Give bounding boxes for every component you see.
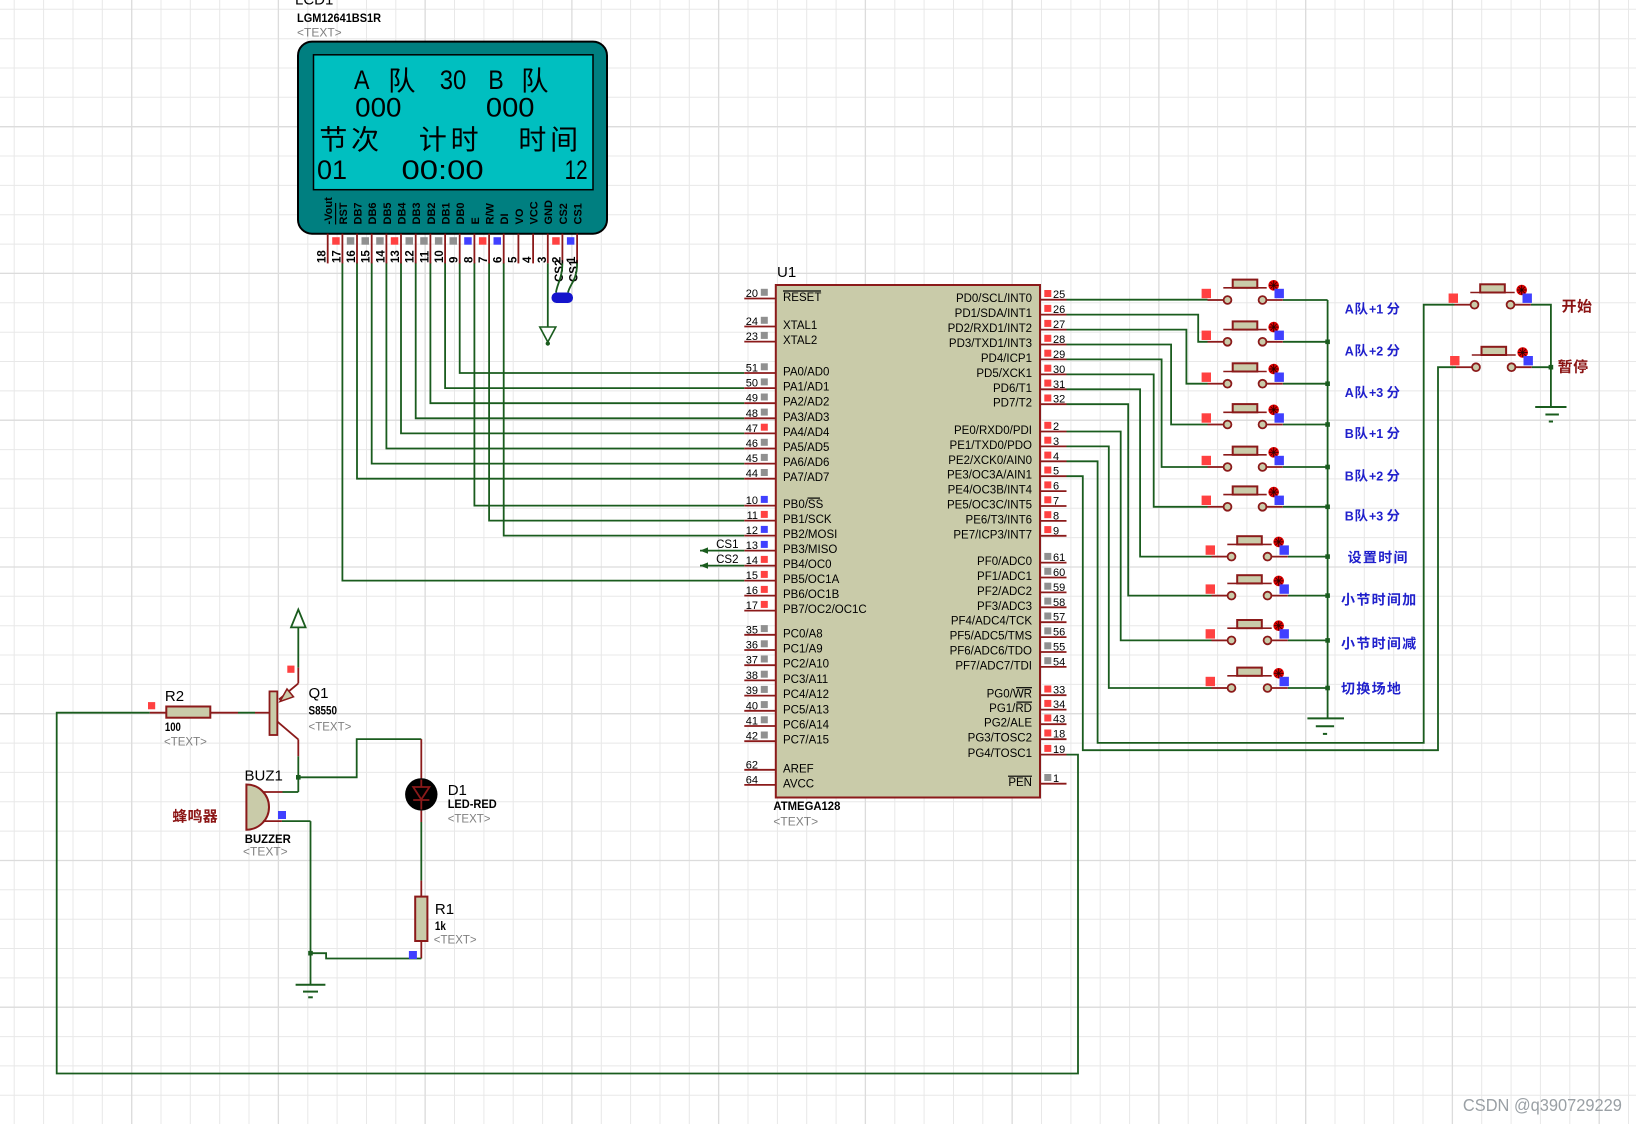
svg-text:R1: R1 xyxy=(435,901,454,918)
svg-text:30: 30 xyxy=(1053,364,1065,376)
svg-text:RESET: RESET xyxy=(783,292,821,304)
svg-text:PD3/TXD1/INT3: PD3/TXD1/INT3 xyxy=(949,338,1032,350)
svg-text:46: 46 xyxy=(746,438,758,450)
svg-text:6: 6 xyxy=(1053,481,1059,493)
svg-text:DB3: DB3 xyxy=(411,202,423,224)
svg-text:VCC: VCC xyxy=(529,201,541,224)
svg-text:B: B xyxy=(1345,427,1354,441)
svg-text:PE6/T3/INT6: PE6/T3/INT6 xyxy=(966,514,1032,526)
svg-text:42: 42 xyxy=(746,731,758,743)
svg-text:12: 12 xyxy=(746,525,758,537)
svg-text:58: 58 xyxy=(1053,597,1065,609)
svg-text:A: A xyxy=(1345,386,1354,400)
svg-text:BUZ1: BUZ1 xyxy=(245,768,283,785)
svg-text:36: 36 xyxy=(746,640,758,652)
svg-text:PC6/A14: PC6/A14 xyxy=(783,720,830,732)
svg-text:XTAL1: XTAL1 xyxy=(783,320,817,332)
svg-text:PC3/A11: PC3/A11 xyxy=(783,674,828,686)
svg-text:6: 6 xyxy=(493,257,505,263)
svg-text:8: 8 xyxy=(1053,510,1059,522)
svg-text:PC5/A13: PC5/A13 xyxy=(783,704,829,716)
svg-text:00:00: 00:00 xyxy=(402,155,484,185)
svg-text:4: 4 xyxy=(1053,451,1059,463)
svg-text:64: 64 xyxy=(746,774,758,786)
svg-text:PE5/OC3C/INT5: PE5/OC3C/INT5 xyxy=(947,500,1032,512)
svg-text:B: B xyxy=(488,65,504,95)
svg-text:13: 13 xyxy=(746,540,758,552)
svg-text:26: 26 xyxy=(1053,304,1065,316)
svg-text:23: 23 xyxy=(746,331,758,343)
svg-text:PE4/OC3B/INT4: PE4/OC3B/INT4 xyxy=(948,485,1033,497)
svg-text:38: 38 xyxy=(746,670,758,682)
svg-text:LCD1: LCD1 xyxy=(295,0,333,9)
svg-text:CSDN @q390729229: CSDN @q390729229 xyxy=(1463,1095,1622,1115)
svg-text:+1: +1 xyxy=(1369,427,1383,441)
svg-text:+3: +3 xyxy=(1369,386,1383,400)
svg-text:PD2/RXD1/INT2: PD2/RXD1/INT2 xyxy=(948,323,1032,335)
svg-text:7: 7 xyxy=(1053,496,1059,508)
svg-text:16: 16 xyxy=(746,585,758,597)
svg-text:+2: +2 xyxy=(1369,344,1383,358)
svg-text:1k: 1k xyxy=(435,921,447,933)
svg-text:PF2/ADC2: PF2/ADC2 xyxy=(977,586,1032,598)
svg-text:A: A xyxy=(354,65,370,95)
svg-text:34: 34 xyxy=(1053,699,1065,711)
svg-text:PG4/TOSC1: PG4/TOSC1 xyxy=(968,748,1032,760)
svg-text:PB7/OC2/OC1C: PB7/OC2/OC1C xyxy=(783,604,867,616)
svg-text:PD1/SDA/INT1: PD1/SDA/INT1 xyxy=(955,308,1032,320)
svg-text:13: 13 xyxy=(390,250,402,263)
svg-text:32: 32 xyxy=(1053,394,1065,406)
svg-text:000: 000 xyxy=(355,93,401,123)
svg-text:ATMEGA128: ATMEGA128 xyxy=(773,799,840,813)
svg-text:U1: U1 xyxy=(777,264,796,281)
svg-text:<TEXT>: <TEXT> xyxy=(773,815,818,829)
svg-text:PF6/ADC6/TDO: PF6/ADC6/TDO xyxy=(950,646,1032,658)
svg-text:43: 43 xyxy=(1053,714,1065,726)
svg-text:PD4/ICP1: PD4/ICP1 xyxy=(981,353,1032,365)
svg-text:59: 59 xyxy=(1053,582,1065,594)
svg-text:<TEXT>: <TEXT> xyxy=(297,26,342,40)
svg-text:15: 15 xyxy=(746,570,758,582)
svg-text:PB6/OC1B: PB6/OC1B xyxy=(783,589,840,601)
svg-text:35: 35 xyxy=(746,624,758,636)
svg-text:16: 16 xyxy=(346,250,358,263)
svg-text:3: 3 xyxy=(1053,436,1059,448)
svg-text:PF3/ADC3: PF3/ADC3 xyxy=(977,601,1032,613)
svg-text:PD6/T1: PD6/T1 xyxy=(993,383,1032,395)
svg-text:25: 25 xyxy=(1053,289,1065,301)
svg-text:B: B xyxy=(1345,470,1354,484)
svg-text:PB0/SS: PB0/SS xyxy=(783,499,824,511)
svg-text:+2: +2 xyxy=(1369,470,1383,484)
svg-text:54: 54 xyxy=(1053,656,1065,668)
svg-text:14: 14 xyxy=(375,250,387,263)
svg-text:PC2/A10: PC2/A10 xyxy=(783,659,829,671)
svg-text:50: 50 xyxy=(746,378,758,390)
svg-text:PF5/ADC5/TMS: PF5/ADC5/TMS xyxy=(950,631,1033,643)
svg-text:12: 12 xyxy=(405,250,417,263)
svg-text:CS1: CS1 xyxy=(716,539,738,551)
svg-text:10: 10 xyxy=(746,495,758,507)
svg-text:57: 57 xyxy=(1053,612,1065,624)
svg-text:RST: RST xyxy=(338,202,350,224)
svg-text:PA6/AD6: PA6/AD6 xyxy=(783,457,829,469)
svg-text:41: 41 xyxy=(746,716,758,728)
svg-text:DB5: DB5 xyxy=(382,202,394,224)
svg-text:31: 31 xyxy=(1053,379,1065,391)
svg-text:DB4: DB4 xyxy=(397,202,409,225)
svg-text:PC7/A15: PC7/A15 xyxy=(783,735,829,747)
svg-text:<TEXT>: <TEXT> xyxy=(448,814,491,826)
svg-text:44: 44 xyxy=(746,468,758,480)
svg-text:Q1: Q1 xyxy=(309,685,329,702)
svg-text:55: 55 xyxy=(1053,642,1065,654)
svg-text:+3: +3 xyxy=(1369,509,1383,523)
svg-text:<TEXT>: <TEXT> xyxy=(434,935,477,947)
svg-text:PA1/AD1: PA1/AD1 xyxy=(783,382,829,394)
svg-text:19: 19 xyxy=(1053,744,1065,756)
svg-text:37: 37 xyxy=(746,655,758,667)
svg-text:DB6: DB6 xyxy=(367,202,379,224)
svg-text:45: 45 xyxy=(746,453,758,465)
svg-text:1: 1 xyxy=(1053,773,1059,785)
svg-text:PG1/RD: PG1/RD xyxy=(989,703,1032,715)
svg-text:14: 14 xyxy=(746,555,758,567)
svg-text:PB3/MISO: PB3/MISO xyxy=(783,544,837,556)
svg-text:PF1/ADC1: PF1/ADC1 xyxy=(977,571,1032,583)
svg-text:10: 10 xyxy=(434,250,446,263)
svg-text:A: A xyxy=(1345,344,1354,358)
svg-text:<TEXT>: <TEXT> xyxy=(164,737,207,749)
svg-text:01: 01 xyxy=(317,155,347,185)
svg-text:D1: D1 xyxy=(448,782,467,799)
svg-text:PE0/RXD0/PDI: PE0/RXD0/PDI xyxy=(954,425,1032,437)
svg-text:PE7/ICP3/INT7: PE7/ICP3/INT7 xyxy=(953,529,1032,541)
svg-text:PE1/TXD0/PDO: PE1/TXD0/PDO xyxy=(950,440,1032,452)
svg-text:-Vout: -Vout xyxy=(323,197,335,225)
svg-text:9: 9 xyxy=(449,257,461,263)
svg-text:PC4/A12: PC4/A12 xyxy=(783,689,829,701)
svg-text:29: 29 xyxy=(1053,349,1065,361)
svg-text:R2: R2 xyxy=(165,688,184,705)
svg-text:5: 5 xyxy=(507,256,519,263)
svg-text:000: 000 xyxy=(486,93,535,123)
svg-text:PG3/TOSC2: PG3/TOSC2 xyxy=(968,733,1032,745)
svg-text:11: 11 xyxy=(419,250,431,263)
svg-text:GND: GND xyxy=(543,200,555,225)
svg-text:A: A xyxy=(1345,303,1354,317)
svg-text:4: 4 xyxy=(522,256,534,263)
svg-text:39: 39 xyxy=(746,685,758,697)
svg-text:40: 40 xyxy=(746,700,758,712)
svg-text:11: 11 xyxy=(747,510,758,522)
svg-text:9: 9 xyxy=(1053,525,1059,537)
svg-text:PA7/AD7: PA7/AD7 xyxy=(783,472,829,484)
svg-text:PD7/T2: PD7/T2 xyxy=(993,398,1032,410)
svg-text:E: E xyxy=(470,217,482,224)
svg-text:<TEXT>: <TEXT> xyxy=(243,845,288,859)
svg-text:49: 49 xyxy=(746,393,758,405)
svg-text:LED-RED: LED-RED xyxy=(448,799,497,811)
svg-text:12: 12 xyxy=(565,155,588,185)
svg-text:18: 18 xyxy=(317,250,329,263)
svg-text:PD0/SCL/INT0: PD0/SCL/INT0 xyxy=(956,293,1032,305)
svg-text:3: 3 xyxy=(537,257,549,263)
svg-text:PF4/ADC4/TCK: PF4/ADC4/TCK xyxy=(951,616,1032,628)
svg-text:61: 61 xyxy=(1053,552,1065,564)
svg-text:30: 30 xyxy=(440,65,467,95)
svg-text:PA4/AD4: PA4/AD4 xyxy=(783,427,830,439)
svg-text:<TEXT>: <TEXT> xyxy=(309,722,352,734)
svg-text:DI: DI xyxy=(499,214,511,225)
svg-text:PA3/AD3: PA3/AD3 xyxy=(783,412,829,424)
svg-text:20: 20 xyxy=(746,288,758,300)
svg-text:62: 62 xyxy=(746,759,758,771)
svg-text:PD5/XCK1: PD5/XCK1 xyxy=(976,368,1032,380)
svg-text:56: 56 xyxy=(1053,627,1065,639)
svg-text:PE2/XCK0/AIN0: PE2/XCK0/AIN0 xyxy=(948,455,1032,467)
svg-text:28: 28 xyxy=(1053,334,1065,346)
svg-text:CS2: CS2 xyxy=(558,203,570,224)
svg-text:PG0/WR: PG0/WR xyxy=(987,689,1032,701)
svg-text:27: 27 xyxy=(1053,319,1065,331)
svg-text:PB1/SCK: PB1/SCK xyxy=(783,514,832,526)
svg-text:5: 5 xyxy=(1053,466,1059,478)
svg-text:18: 18 xyxy=(1053,729,1065,741)
svg-text:+1: +1 xyxy=(1369,303,1383,317)
svg-text:24: 24 xyxy=(746,316,758,328)
svg-text:CS1: CS1 xyxy=(573,203,585,224)
svg-text:PA0/AD0: PA0/AD0 xyxy=(783,367,829,379)
svg-text:8: 8 xyxy=(463,256,475,263)
svg-text:48: 48 xyxy=(746,408,758,420)
svg-text:AVCC: AVCC xyxy=(783,778,814,790)
svg-text:100: 100 xyxy=(165,722,181,734)
svg-text:DB1: DB1 xyxy=(441,202,453,224)
svg-text:R/W: R/W xyxy=(485,203,497,225)
svg-text:2: 2 xyxy=(1053,421,1059,433)
svg-text:VO: VO xyxy=(514,208,526,224)
svg-text:PF0/ADC0: PF0/ADC0 xyxy=(977,556,1032,568)
svg-text:PEN: PEN xyxy=(1008,777,1032,789)
svg-text:DB0: DB0 xyxy=(455,202,467,224)
svg-text:PB5/OC1A: PB5/OC1A xyxy=(783,574,840,586)
svg-text:AREF: AREF xyxy=(783,763,814,775)
svg-text:PF7/ADC7/TDI: PF7/ADC7/TDI xyxy=(955,660,1032,672)
svg-text:CS2: CS2 xyxy=(716,554,738,566)
svg-text:7: 7 xyxy=(478,257,490,263)
svg-text:60: 60 xyxy=(1053,567,1065,579)
svg-text:PC1/A9: PC1/A9 xyxy=(783,644,823,656)
svg-text:PE3/OC3A/AIN1: PE3/OC3A/AIN1 xyxy=(947,470,1032,482)
svg-text:PA5/AD5: PA5/AD5 xyxy=(783,442,829,454)
svg-text:33: 33 xyxy=(1053,685,1065,697)
svg-text:51: 51 xyxy=(746,363,758,375)
svg-text:PB4/OC0: PB4/OC0 xyxy=(783,559,832,571)
svg-text:S8550: S8550 xyxy=(309,706,338,718)
svg-text:PG2/ALE: PG2/ALE xyxy=(984,718,1032,730)
svg-text:17: 17 xyxy=(746,600,758,612)
svg-text:PB2/MOSI: PB2/MOSI xyxy=(783,529,837,541)
svg-text:LGM12641BS1R: LGM12641BS1R xyxy=(297,11,381,25)
svg-text:17: 17 xyxy=(331,250,343,263)
svg-text:XTAL2: XTAL2 xyxy=(783,335,817,347)
svg-text:PC0/A8: PC0/A8 xyxy=(783,628,823,640)
svg-text:PA2/AD2: PA2/AD2 xyxy=(783,397,829,409)
svg-text:DB2: DB2 xyxy=(426,202,438,224)
svg-text:B: B xyxy=(1345,509,1354,523)
svg-text:47: 47 xyxy=(746,423,758,435)
svg-text:15: 15 xyxy=(361,250,373,263)
svg-text:DB7: DB7 xyxy=(353,202,365,224)
